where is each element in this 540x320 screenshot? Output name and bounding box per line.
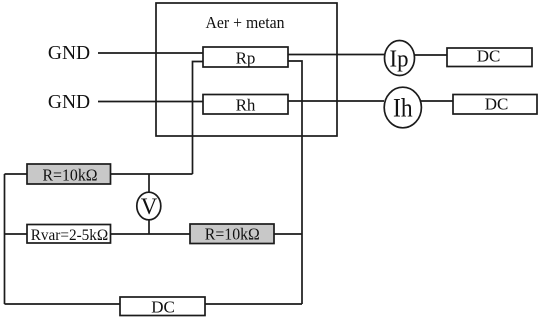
svg-text:Ip: Ip — [390, 46, 409, 72]
svg-text:DC: DC — [485, 95, 509, 114]
svg-text:R=10kΩ: R=10kΩ — [205, 225, 260, 244]
svg-text:GND: GND — [48, 92, 90, 113]
svg-text:R=10kΩ: R=10kΩ — [43, 166, 98, 185]
svg-text:Rp: Rp — [236, 49, 256, 68]
svg-text:DC: DC — [477, 47, 501, 66]
svg-text:GND: GND — [48, 43, 90, 64]
svg-text:Ih: Ih — [393, 94, 413, 123]
svg-text:Aer + metan: Aer + metan — [206, 13, 285, 32]
svg-text:Rvar=2-5kΩ: Rvar=2-5kΩ — [31, 227, 109, 244]
svg-text:DC: DC — [151, 297, 175, 316]
svg-text:Rh: Rh — [236, 96, 256, 115]
svg-text:V: V — [141, 194, 158, 219]
